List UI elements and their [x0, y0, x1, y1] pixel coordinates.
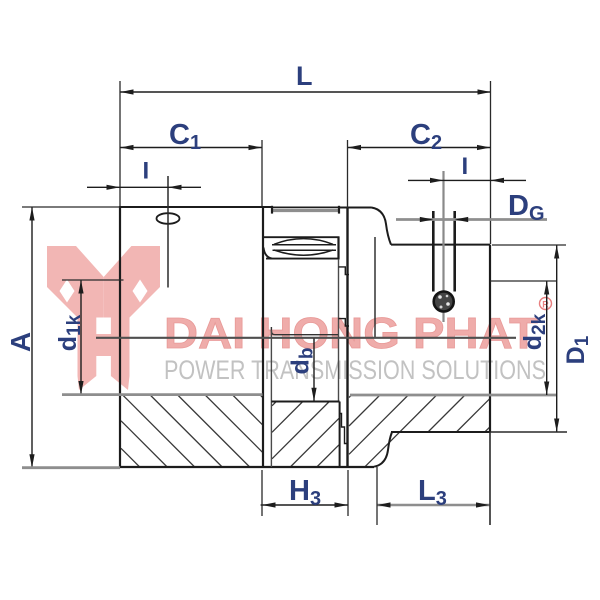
svg-text:I: I — [462, 153, 469, 180]
svg-text:DAI HONG PHAT: DAI HONG PHAT — [164, 309, 538, 358]
svg-text:I: I — [143, 158, 150, 185]
svg-text:A: A — [5, 332, 36, 352]
svg-text:POWER TRANSMISSION SOLUTIONS: POWER TRANSMISSION SOLUTIONS — [164, 355, 546, 385]
svg-text:R: R — [542, 300, 549, 310]
svg-text:L: L — [296, 61, 313, 91]
